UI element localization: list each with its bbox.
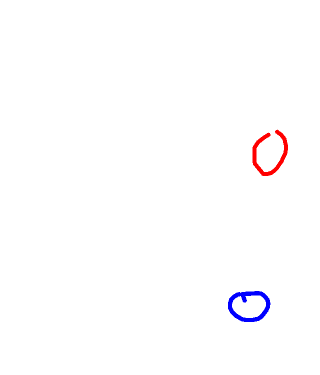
blue hand-drawn closed oval with start hook (230, 293, 268, 320)
red hand-drawn open oval (254, 132, 286, 174)
